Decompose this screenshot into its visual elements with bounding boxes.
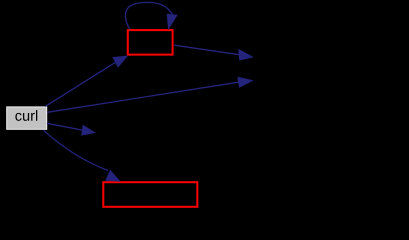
node curl [7, 107, 47, 129]
edge N1 self loop [125, 2, 177, 29]
edge curl -> right node C (short) [47, 123, 95, 135]
edge curl -> right node B [47, 77, 253, 112]
edge N1 -> right node A [174, 45, 253, 60]
edge curl -> N2 (curved) [44, 130, 121, 181]
edge curl -> N1 [45, 56, 127, 107]
node N1 (top, red border) [128, 30, 173, 54]
node N2 (bottom, red border) [103, 182, 197, 207]
